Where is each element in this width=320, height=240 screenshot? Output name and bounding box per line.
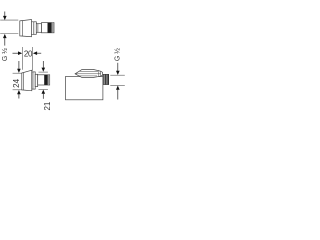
svg-text:21: 21 bbox=[43, 101, 52, 110]
svg-text:20: 20 bbox=[24, 50, 33, 59]
svg-text:24: 24 bbox=[12, 78, 21, 87]
svg-text:G ½: G ½ bbox=[1, 48, 9, 61]
svg-text:G ½: G ½ bbox=[114, 48, 122, 61]
